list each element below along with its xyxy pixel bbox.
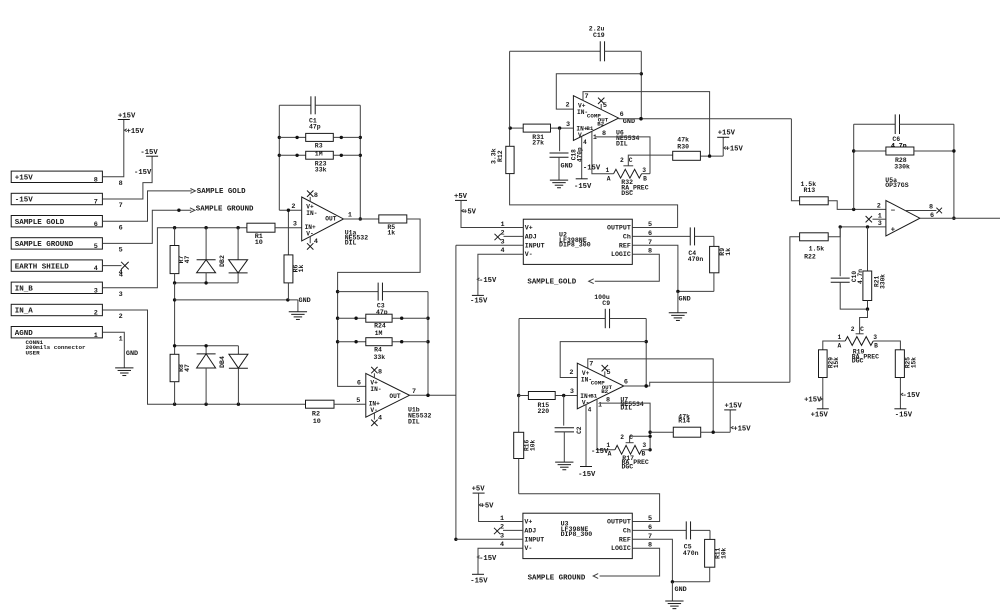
svg-text:+15V: +15V (726, 146, 744, 154)
svg-text:Ch: Ch (623, 527, 631, 534)
U7 pin 8 wire to R17 B (601, 396, 652, 451)
svg-text:LOGIC: LOGIC (611, 545, 631, 552)
svg-text:1: 1 (598, 401, 602, 409)
wire net IN_B (102, 226, 247, 288)
svg-text:6: 6 (357, 379, 361, 387)
capacitor C6 (854, 114, 954, 149)
svg-text:470n: 470n (683, 550, 699, 557)
wire C9 left vertical (517, 319, 520, 398)
wire R13 to U5 IN- (828, 201, 886, 211)
resistor R11 (705, 530, 728, 581)
svg-text:6: 6 (94, 221, 98, 229)
svg-text:33k: 33k (315, 166, 327, 173)
power -15V for U3 (470, 555, 497, 586)
svg-text:7: 7 (584, 93, 588, 101)
svg-text:6: 6 (648, 230, 652, 238)
wire U1b output (410, 394, 456, 397)
wire U3 INPUT pin 3 (456, 532, 523, 540)
wire R19 A to R29 (823, 341, 845, 350)
U7 pin 1 wire to R17 A (597, 399, 615, 450)
wire U6 IN- feedback (556, 74, 641, 109)
svg-text:10: 10 (313, 418, 321, 426)
svg-text:4: 4 (583, 139, 587, 146)
wire EARTH SHIELD stub (102, 265, 121, 267)
wire DB4 top rail (GND) (173, 344, 238, 347)
resistor R9 (710, 236, 732, 291)
svg-text:GND: GND (623, 118, 635, 126)
svg-text:B2: B2 (601, 388, 608, 395)
svg-text:3: 3 (878, 220, 882, 228)
wire U1a feedback left vertical (278, 105, 281, 210)
svg-text:1: 1 (119, 335, 123, 343)
ground U3 REF (665, 582, 687, 609)
U5 name (885, 177, 909, 189)
svg-text:-15V: -15V (134, 169, 152, 177)
svg-text:R3: R3 (315, 143, 323, 150)
svg-text:IN-: IN- (306, 210, 317, 217)
wire U2 INPUT pin 3 (456, 238, 523, 246)
wire SAMPLE GOLD from pin 6 (102, 191, 191, 221)
junction on SAMPLE GROUND wire (177, 209, 180, 212)
svg-text:+15V: +15V (127, 128, 145, 136)
svg-text:SAMPLE GOLD: SAMPLE GOLD (197, 188, 246, 196)
wire U2 Ch pin 6 (632, 230, 690, 238)
svg-text:3: 3 (500, 532, 504, 540)
svg-text:1k: 1k (298, 265, 305, 273)
svg-text:47k: 47k (677, 136, 689, 143)
svg-text:-15V: -15V (583, 165, 601, 173)
wire U2 V+ pin 1 (461, 200, 523, 229)
svg-text:DIP8_300: DIP8_300 (559, 242, 591, 249)
svg-text:220: 220 (538, 408, 550, 415)
resistor R3 (279, 133, 360, 157)
svg-text:DIL: DIL (345, 239, 357, 246)
svg-text:2: 2 (851, 326, 855, 333)
power +15V supply top-left (118, 112, 145, 135)
U7 pin labels (569, 369, 628, 396)
svg-text:DGC: DGC (852, 358, 864, 365)
svg-text:+5V: +5V (463, 208, 477, 216)
connector CONN1 pin 3 IN_B (11, 282, 123, 299)
svg-text:4: 4 (500, 541, 504, 549)
svg-text:4: 4 (378, 415, 382, 423)
wire U3 Ch pin 6 (632, 524, 686, 532)
U6 inner labels (576, 103, 608, 139)
U6 pin 7 wire to +15V (583, 92, 710, 157)
svg-text:7: 7 (648, 533, 652, 541)
svg-text:5: 5 (648, 515, 652, 523)
capacitor C19 (510, 26, 642, 128)
resistor R13 (800, 181, 829, 205)
svg-text:15k: 15k (910, 357, 917, 368)
svg-text:DSC: DSC (621, 190, 633, 197)
svg-text:1: 1 (838, 334, 842, 341)
connector CONN1 pin 6 SAMPLE GOLD (11, 216, 123, 233)
U3 ADJ stub pin 2 (494, 523, 523, 534)
wire R9 bottom to REF node (676, 290, 714, 293)
wire GND rail left (173, 283, 298, 346)
U3 pin names (524, 519, 630, 553)
U5 pin 8 stub X (905, 203, 942, 213)
capacitor C1 (279, 96, 360, 130)
svg-text:OUT: OUT (325, 216, 336, 223)
diode DB4 left (197, 346, 216, 404)
wire C19 right to U6 output (639, 51, 643, 120)
svg-text:B: B (642, 451, 646, 458)
resistor R1 (247, 223, 302, 247)
resistor R12 (491, 128, 515, 174)
label DB2 (219, 255, 226, 267)
svg-text:8: 8 (602, 130, 606, 138)
IC U3 LF398NE box (523, 513, 632, 558)
svg-text:1M: 1M (375, 330, 383, 337)
wire U1b feedback right vertical (426, 292, 429, 397)
U1a pin 8 stub and X (307, 191, 318, 202)
svg-text:3: 3 (119, 291, 123, 299)
svg-text:+15V: +15V (811, 411, 829, 419)
trimmer R32 (606, 167, 650, 197)
svg-text:-15V: -15V (895, 411, 913, 419)
net label SAMPLE GROUND (528, 574, 599, 583)
svg-text:SAMPLE_GOLD: SAMPLE_GOLD (527, 278, 576, 286)
svg-text:33k: 33k (374, 354, 386, 361)
U2 pin names (525, 225, 631, 259)
svg-text:2: 2 (94, 310, 98, 318)
svg-text:A: A (607, 176, 611, 183)
svg-text:6: 6 (624, 379, 628, 387)
svg-text:5: 5 (603, 102, 607, 110)
svg-text:5: 5 (94, 243, 98, 251)
U2 ADJ stub pin 2 (495, 229, 524, 240)
resistor R25 (895, 350, 917, 409)
svg-text:4.7n: 4.7n (891, 143, 907, 150)
svg-text:C9: C9 (602, 300, 610, 307)
svg-text:V-: V- (306, 230, 313, 237)
svg-text:B1: B1 (586, 125, 593, 132)
wire R19 B to R25 (873, 341, 900, 350)
resistor R6 (284, 210, 305, 300)
U7 pin 4 wire to -15V (586, 404, 592, 467)
svg-text:7: 7 (94, 199, 98, 207)
svg-text:4: 4 (314, 238, 318, 246)
svg-text:2: 2 (119, 313, 123, 321)
svg-text:+15V: +15V (733, 426, 751, 434)
svg-text:DIL: DIL (616, 141, 628, 148)
svg-text:470p: 470p (576, 147, 583, 162)
svg-text:OP37GS: OP37GS (885, 182, 909, 189)
resistor R16 (514, 396, 537, 494)
svg-text:1: 1 (500, 221, 504, 229)
svg-text:-15V: -15V (470, 577, 488, 585)
svg-text:4: 4 (588, 406, 592, 413)
svg-text:DB2: DB2 (219, 255, 226, 267)
svg-text:8: 8 (648, 542, 652, 550)
svg-text:V-: V- (525, 251, 533, 258)
svg-text:8: 8 (119, 180, 123, 188)
svg-text:1: 1 (94, 332, 98, 340)
svg-text:B1: B1 (590, 392, 597, 399)
op-amp U7 (577, 363, 624, 409)
svg-text:+15V: +15V (804, 397, 822, 405)
power +5V for U2 (454, 193, 477, 216)
svg-text:V-: V- (524, 545, 532, 552)
capacitor C3 (338, 283, 428, 316)
wire vertical to U2/U3 inputs (454, 245, 457, 541)
svg-text:2: 2 (620, 157, 624, 164)
svg-text:3: 3 (500, 238, 504, 246)
wire U1a IN- node (279, 209, 301, 212)
U5 inner +/- (891, 207, 896, 234)
connector CONN1 pin 7 -15V (11, 193, 123, 210)
svg-text:B: B (643, 176, 647, 183)
capacitor C4 (688, 227, 714, 263)
capacitor C5 (683, 521, 710, 557)
svg-text:V-: V- (370, 407, 377, 414)
svg-text:ADJ: ADJ (525, 233, 537, 240)
connector CONN1 pin 2 IN_A (11, 304, 123, 321)
svg-text:330k: 330k (879, 274, 886, 289)
U1a pin 4 stub and X (307, 236, 318, 249)
ground near R6 (289, 297, 311, 320)
svg-text:8: 8 (314, 192, 318, 200)
power +15V near R30 (717, 130, 743, 156)
U7 pin 5 X (602, 365, 611, 377)
svg-text:V+: V+ (525, 225, 533, 232)
wire U2 V- pin 4 to -15V (478, 247, 523, 295)
ground C18 (550, 162, 573, 187)
svg-text:EARTH SHIELD: EARTH SHIELD (15, 263, 70, 271)
wire C9 right vertical to U7 out (645, 319, 648, 388)
wire U7 output (624, 382, 790, 387)
power -15V for U2 (470, 277, 497, 306)
op-amp U5 (886, 201, 920, 236)
wire U5 output (920, 212, 1000, 220)
svg-text:3: 3 (94, 287, 98, 295)
svg-text:REF: REF (619, 536, 631, 543)
svg-text:R4: R4 (374, 347, 382, 354)
IC U2 LF398NE box (523, 219, 632, 264)
svg-text:C: C (629, 157, 633, 164)
svg-text:2: 2 (500, 229, 504, 237)
svg-text:OUTPUT: OUTPUT (607, 225, 631, 232)
svg-text:2: 2 (877, 203, 881, 211)
svg-text:+15V: +15V (118, 112, 136, 120)
wire U3 V+ pin 1 (479, 493, 523, 523)
svg-text:V+: V+ (524, 519, 532, 526)
svg-text:C: C (860, 326, 864, 333)
svg-text:5: 5 (356, 397, 360, 405)
svg-text:4: 4 (119, 271, 123, 279)
power +5V for U3 (472, 486, 495, 511)
svg-text:1: 1 (606, 442, 610, 449)
diode DB2 left (197, 228, 216, 283)
svg-text:5: 5 (648, 221, 652, 229)
wire U1a feedback right vertical (359, 105, 362, 220)
wire AGND from pin 1 (102, 332, 124, 368)
svg-text:1M: 1M (315, 150, 323, 157)
svg-text:+: + (891, 226, 896, 234)
svg-text:SAMPLE GROUND: SAMPLE GROUND (196, 205, 254, 213)
wire R16 to U3 OUTPUT (519, 494, 660, 522)
svg-text:DIL: DIL (620, 404, 632, 411)
svg-text:SAMPLE GROUND: SAMPLE GROUND (15, 241, 74, 249)
svg-text:1k: 1k (725, 248, 732, 256)
U6 output GND label (623, 118, 635, 126)
svg-text:DIP8_300: DIP8_300 (561, 531, 593, 538)
U6 pin labels (565, 102, 623, 129)
net label SAMPLE GROUND (190, 205, 254, 213)
svg-text:7: 7 (412, 388, 416, 396)
svg-text:+5V: +5V (454, 193, 468, 201)
wire U3 OUTPUT pin 5 (632, 515, 659, 523)
svg-text:OUT: OUT (389, 393, 400, 400)
resistor R7 (170, 228, 191, 283)
resistor R21 (863, 227, 886, 311)
svg-text:R13: R13 (804, 187, 816, 194)
svg-text:R12: R12 (497, 150, 504, 162)
U6 pin 4 wire to -15V (582, 137, 587, 179)
svg-text:OUTPUT: OUTPUT (607, 519, 631, 526)
capacitor C18 (550, 128, 584, 180)
connector CONN1 pin 8 +15V (11, 171, 123, 188)
resistor R5 (379, 215, 407, 237)
svg-text:3: 3 (570, 388, 574, 396)
svg-text:8: 8 (378, 368, 382, 376)
connector CONN1 label (26, 339, 87, 357)
svg-text:1: 1 (593, 134, 597, 142)
svg-text:+15V: +15V (15, 175, 34, 183)
svg-text:1: 1 (606, 167, 610, 174)
U7 pin 7 wire to +15V (588, 359, 713, 432)
svg-text:5: 5 (119, 247, 123, 255)
svg-text:7: 7 (648, 239, 652, 247)
power -15V for U7 (578, 448, 609, 479)
wire U7 IN- feedback (560, 342, 646, 378)
svg-text:6: 6 (930, 212, 934, 220)
U6 name (616, 130, 640, 148)
U1b pin 8 stub and X (371, 367, 382, 378)
svg-text:-15V: -15V (591, 448, 609, 456)
svg-text:10k: 10k (720, 547, 727, 558)
svg-text:-15V: -15V (140, 149, 158, 157)
svg-text:IN_B: IN_B (15, 286, 34, 294)
svg-text:8: 8 (648, 248, 652, 256)
svg-text:6: 6 (648, 524, 652, 532)
resistor R31 (509, 124, 574, 147)
svg-text:+15V: +15V (725, 402, 743, 410)
power +15V near R14 (724, 402, 751, 433)
resistor R15 (519, 392, 578, 415)
op-amp U6 (573, 96, 618, 141)
svg-text:REF: REF (619, 242, 631, 249)
svg-text:R24: R24 (374, 323, 386, 330)
resistor R22 (800, 233, 829, 260)
resistor R30 (673, 136, 724, 160)
svg-text:8: 8 (606, 396, 610, 404)
svg-text:DB4: DB4 (219, 356, 226, 368)
resistor R2 (306, 400, 366, 426)
U1b name (408, 407, 432, 426)
svg-text:A: A (838, 342, 842, 349)
svg-text:GND: GND (299, 297, 311, 305)
svg-text:4: 4 (500, 247, 504, 255)
svg-text:USER: USER (26, 350, 41, 357)
U5 pin 1 stub X (866, 212, 886, 222)
resistor R24 (338, 314, 428, 337)
svg-text:DGC: DGC (622, 464, 634, 471)
wire U1a output (344, 218, 379, 220)
svg-text:10k: 10k (530, 440, 537, 451)
svg-text:2: 2 (620, 434, 624, 441)
svg-text:7: 7 (589, 360, 593, 368)
svg-text:2: 2 (565, 102, 569, 110)
U1b pin labels (356, 379, 416, 405)
svg-text:3: 3 (642, 167, 646, 174)
power -15V supply top-left (134, 149, 158, 177)
svg-text:2: 2 (500, 523, 504, 531)
resistor R23 (279, 150, 360, 173)
svg-text:−: − (891, 207, 896, 215)
svg-text:-15V: -15V (470, 298, 488, 306)
diode DB4 right (229, 346, 248, 404)
trimmer R17 (606, 442, 650, 471)
wire U3 LOGIC pin 8 (600, 542, 660, 576)
U7 inner labels (580, 370, 612, 406)
U2 name (559, 231, 591, 248)
svg-text:-15V: -15V (574, 183, 592, 191)
op-amp U1b (366, 373, 410, 417)
U3 name (561, 520, 593, 538)
svg-text:IN-: IN- (370, 386, 381, 393)
svg-text:4: 4 (94, 265, 98, 273)
svg-text:+5V: +5V (481, 503, 495, 511)
ground U2 REF (669, 291, 691, 320)
svg-text:GND: GND (126, 350, 138, 358)
resistor R29 (819, 350, 841, 409)
svg-text:C: C (629, 434, 633, 441)
svg-text:B: B (874, 342, 878, 349)
wire net IN_A (102, 310, 305, 406)
wire U5 IN+ (839, 220, 886, 229)
svg-text:SAMPLE GOLD: SAMPLE GOLD (15, 219, 65, 227)
wire SAMPLE GROUND from pin 5 (102, 210, 191, 243)
svg-text:8: 8 (929, 203, 933, 211)
svg-text:27k: 27k (532, 140, 544, 147)
power -15V below R25 (894, 392, 920, 420)
diode DB2 right (229, 228, 248, 283)
connector CONN1 pin 5 SAMPLE GROUND (11, 238, 123, 255)
no-connect X EARTH SHIELD (119, 262, 129, 280)
svg-text:A: A (608, 451, 612, 458)
R32 wiper (620, 155, 673, 166)
svg-text:Ch: Ch (623, 233, 631, 240)
svg-text:-15V: -15V (479, 555, 497, 563)
svg-text:15k: 15k (833, 357, 840, 368)
wire U6 out to R13 (791, 119, 799, 201)
op-amp U1a (302, 197, 344, 241)
trimmer R19 (838, 326, 880, 365)
svg-text:R22: R22 (804, 253, 816, 260)
svg-text:3: 3 (642, 442, 646, 449)
wire U3 REF pin 7 to GND (632, 533, 672, 582)
U1b inner labels (369, 380, 401, 414)
U1a name (345, 230, 369, 247)
wire R22 to U5 IN+ (828, 227, 840, 237)
capacitor C10 (831, 227, 868, 309)
power -15V for U6 (574, 165, 601, 191)
power +15V below R29 (804, 397, 829, 420)
svg-text:5: 5 (606, 369, 610, 377)
